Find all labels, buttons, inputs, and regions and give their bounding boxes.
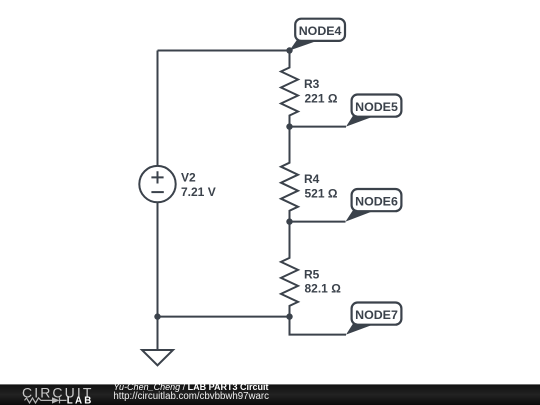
ground	[142, 350, 173, 365]
svg-text:221 Ω: 221 Ω	[305, 91, 338, 105]
junction at NODE6	[286, 218, 292, 224]
svg-text:NODE4: NODE4	[299, 24, 342, 38]
footer bar	[0, 384, 540, 405]
junction at NODE5	[286, 123, 292, 129]
wire bottom rail	[158, 316, 290, 318]
junction at NODE7	[286, 313, 292, 319]
svg-text:V2: V2	[181, 171, 196, 185]
voltage source V2	[139, 166, 175, 202]
resistor R4	[281, 127, 298, 222]
resistor R3	[281, 51, 298, 127]
junction at ground	[154, 313, 160, 319]
svg-text:NODE5: NODE5	[355, 100, 398, 114]
svg-text:R4: R4	[304, 172, 320, 186]
wire ground stem	[157, 317, 159, 350]
wire left lower (V2 bottom to ground node)	[157, 202, 159, 316]
svg-text:NODE6: NODE6	[355, 194, 398, 208]
resistor R5	[281, 222, 298, 317]
node NODE7	[346, 303, 401, 335]
svg-text:82.1 Ω: 82.1 Ω	[305, 282, 342, 296]
svg-text:R3: R3	[304, 77, 320, 91]
svg-text:NODE7: NODE7	[355, 308, 398, 322]
svg-text:http://circuitlab.com/cbvbbwh9: http://circuitlab.com/cbvbbwh97warc	[113, 391, 269, 402]
logo squiggle resistor-diode	[25, 397, 67, 403]
wire NODE5 stub	[290, 126, 347, 128]
wire NODE7 stub	[290, 317, 347, 335]
svg-text:521 Ω: 521 Ω	[305, 187, 338, 201]
wire NODE6 stub	[290, 221, 346, 223]
wire left upper (to V2 top)	[157, 51, 159, 166]
node NODE5	[346, 95, 401, 127]
svg-text:7.21 V: 7.21 V	[181, 185, 216, 199]
node NODE4	[290, 19, 346, 51]
junction at NODE4	[286, 47, 292, 53]
svg-text:R5: R5	[304, 267, 320, 281]
wire top rail	[158, 50, 290, 52]
svg-text:LAB: LAB	[67, 395, 94, 405]
node NODE6	[346, 189, 402, 222]
